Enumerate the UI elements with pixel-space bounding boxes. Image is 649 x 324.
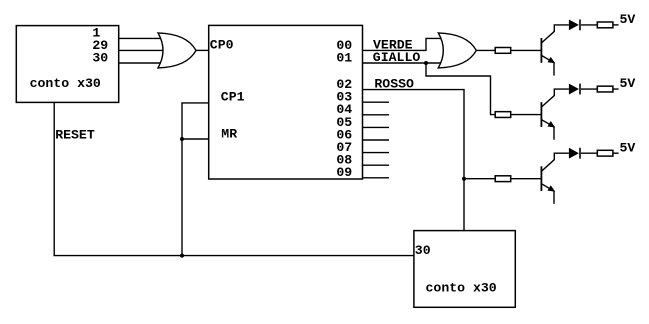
net VERDE wire (pin 00 to G2 upper input) bbox=[363, 38, 442, 50]
junction node at MR tap bbox=[180, 137, 184, 141]
net GIALLO wire (pin 01 to G2 lower input) bbox=[363, 62, 442, 64]
wire MR tap bbox=[182, 138, 209, 140]
stub pin 03 bbox=[363, 101, 390, 103]
resistor R1 (base of Q1) bbox=[495, 48, 511, 54]
wire R6 to 5V bbox=[613, 152, 619, 154]
transistor Q3 bbox=[541, 153, 569, 204]
wire U1 pin29 to OR1 input bbox=[119, 49, 164, 51]
net ROSSO wire (pin 02 down to U3 clock) bbox=[363, 90, 465, 231]
resistor R3 (base of Q3) bbox=[495, 176, 511, 182]
wire R4 to 5V bbox=[613, 24, 619, 26]
transistor Q2 bbox=[541, 89, 569, 140]
diode D3 bbox=[569, 148, 580, 159]
stub pin 09 bbox=[363, 177, 390, 179]
wire G1 output to CP0 bbox=[196, 49, 209, 51]
stub pin 08 bbox=[363, 164, 390, 166]
svg-text:5V: 5V bbox=[620, 140, 636, 155]
resistor R5 (5V pull, Q2) bbox=[597, 86, 613, 92]
counter box U3 "conto x30" (bottom-right) bbox=[414, 231, 515, 308]
counter box U1 "conto x30" (top-left) bbox=[16, 26, 118, 103]
svg-text:CP0: CP0 bbox=[210, 38, 234, 53]
or-gate G1 bbox=[158, 33, 196, 68]
wire G2 output to R1 bbox=[476, 49, 495, 51]
svg-text:MR: MR bbox=[221, 126, 237, 141]
counter IC U2 (center box) bbox=[209, 25, 363, 179]
wire D3 to R6 bbox=[581, 152, 597, 154]
junction node on ROSSO vertical bbox=[462, 177, 466, 181]
wire D1 to R4 bbox=[581, 24, 597, 26]
stub pin 07 bbox=[363, 152, 390, 154]
svg-text:CP1: CP1 bbox=[221, 90, 245, 105]
svg-text:30: 30 bbox=[92, 51, 108, 66]
wire R5 to 5V bbox=[613, 88, 619, 90]
wire ROSSO branch to R3 bbox=[464, 178, 495, 180]
wire U1 pin1 to OR1 input bbox=[119, 37, 161, 39]
resistor R2 (base of Q2) bbox=[495, 112, 511, 118]
svg-text:09: 09 bbox=[336, 165, 352, 180]
junction node on GIALLO bbox=[424, 61, 428, 65]
svg-text:conto x30: conto x30 bbox=[30, 76, 101, 91]
wire R3 to Q3 base bbox=[511, 178, 542, 180]
diode D2 bbox=[569, 84, 580, 95]
resistor R6 (5V pull, Q3) bbox=[597, 150, 613, 156]
stub pin 06 bbox=[363, 139, 390, 141]
svg-text:ROSSO: ROSSO bbox=[374, 77, 414, 92]
wire D2 to R5 bbox=[581, 88, 597, 90]
svg-text:5V: 5V bbox=[620, 76, 636, 91]
svg-text:01: 01 bbox=[336, 50, 352, 65]
transistor Q1 bbox=[541, 25, 569, 76]
resistor R4 (5V pull, Q1) bbox=[597, 22, 613, 28]
svg-text:conto x30: conto x30 bbox=[426, 281, 497, 296]
svg-text:RESET: RESET bbox=[55, 128, 95, 143]
or-gate G2 bbox=[438, 33, 476, 68]
stub pin 05 bbox=[363, 126, 390, 128]
wire CP1 net (vertical bus down to bottom wire) bbox=[182, 103, 209, 256]
junction node on bottom wire bbox=[180, 254, 184, 258]
diode D1 bbox=[569, 20, 580, 31]
svg-text:GIALLO: GIALLO bbox=[373, 50, 421, 65]
svg-text:30: 30 bbox=[415, 243, 431, 258]
wire GIALLO branch to R2 bbox=[426, 63, 495, 115]
wire R1 to Q1 base bbox=[511, 49, 542, 51]
wire RESET net (U1 bottom to U3 pin 30) bbox=[54, 102, 414, 255]
stub pin 04 bbox=[363, 114, 390, 116]
wire R2 to Q2 base bbox=[511, 114, 542, 116]
wire U1 pin30 to OR1 input bbox=[119, 62, 161, 64]
svg-text:5V: 5V bbox=[620, 12, 636, 27]
